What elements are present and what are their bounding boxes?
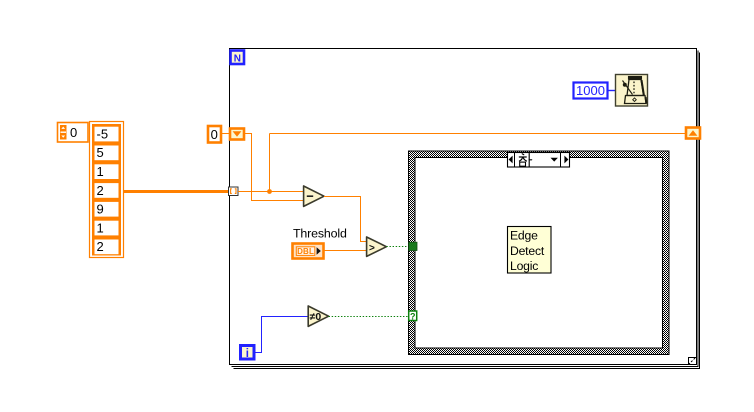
numeric constant 1000	[574, 83, 608, 99]
array wire (thick) into loop	[124, 190, 230, 193]
wire 1000 to wait	[607, 90, 615, 92]
svg-text:Logic: Logic	[510, 259, 538, 273]
svg-text:>: >	[369, 243, 375, 254]
DBL control terminal	[293, 244, 324, 259]
subtract node	[304, 186, 324, 206]
array constant frame	[90, 122, 124, 258]
svg-text:1: 1	[97, 220, 104, 235]
case tunnel (boolean, linked)	[409, 242, 417, 250]
wire junction up to top rail	[269, 134, 271, 192]
wire subtract output to greater upper input	[324, 197, 367, 242]
wire shift register to subtract lower input	[244, 134, 304, 201]
svg-text:0: 0	[70, 125, 77, 140]
not-equal-to-zero node	[308, 306, 328, 326]
wire top rail to right shift register	[270, 133, 687, 135]
svg-text:Detect: Detect	[510, 244, 545, 258]
svg-text:i: i	[246, 348, 249, 360]
wire 0 to shift register	[221, 133, 230, 135]
svg-text:2: 2	[97, 183, 104, 198]
svg-text:N: N	[234, 53, 241, 64]
loop resize fold (bottom-right grip)	[689, 357, 697, 365]
case selector terminal ?	[409, 311, 417, 322]
array index display	[58, 123, 89, 143]
array element 9	[95, 202, 119, 217]
boolean wire greater to case tunnel	[386, 246, 409, 248]
array element -5	[95, 126, 119, 141]
svg-text:Threshold: Threshold	[293, 227, 347, 241]
i terminal wire to not-equal node	[254, 317, 308, 353]
svg-text:9: 9	[97, 202, 104, 217]
svg-text:1000: 1000	[576, 83, 605, 98]
boolean wire not-equal to case selector	[329, 316, 408, 318]
greater node	[367, 237, 387, 256]
svg-text:Edge: Edge	[510, 228, 538, 242]
svg-text:DBL: DBL	[297, 247, 314, 256]
shift register left terminal	[230, 129, 244, 140]
svg-text:?: ?	[410, 312, 416, 322]
wire tunnel to subtract upper input	[238, 191, 304, 193]
N terminal (loop count)	[231, 51, 245, 65]
array element 1	[95, 220, 119, 235]
auto-index tunnel	[229, 187, 239, 196]
case selector label	[508, 153, 570, 168]
array element 2	[95, 239, 119, 254]
Edge Detect Logic free label	[508, 227, 552, 274]
svg-text:0: 0	[211, 127, 218, 142]
array element 1	[95, 164, 119, 179]
svg-text:-5: -5	[97, 126, 109, 141]
case structure border	[409, 151, 670, 355]
for loop border	[230, 49, 700, 369]
array element 5	[95, 145, 119, 160]
svg-text:5: 5	[97, 145, 104, 160]
junction node	[267, 189, 272, 194]
svg-text:≠0: ≠0	[310, 311, 322, 323]
shift register right terminal	[686, 128, 700, 139]
i terminal (iteration)	[241, 346, 255, 360]
selector text 참 (drawn)	[519, 153, 531, 166]
wire DBL to greater lower input	[323, 250, 367, 252]
numeric constant 0 (shift register init)	[208, 126, 221, 143]
svg-text:1: 1	[97, 164, 104, 179]
svg-text:2: 2	[97, 239, 104, 254]
Wait (ms) metronome icon	[616, 75, 648, 107]
array element 2	[95, 183, 119, 198]
